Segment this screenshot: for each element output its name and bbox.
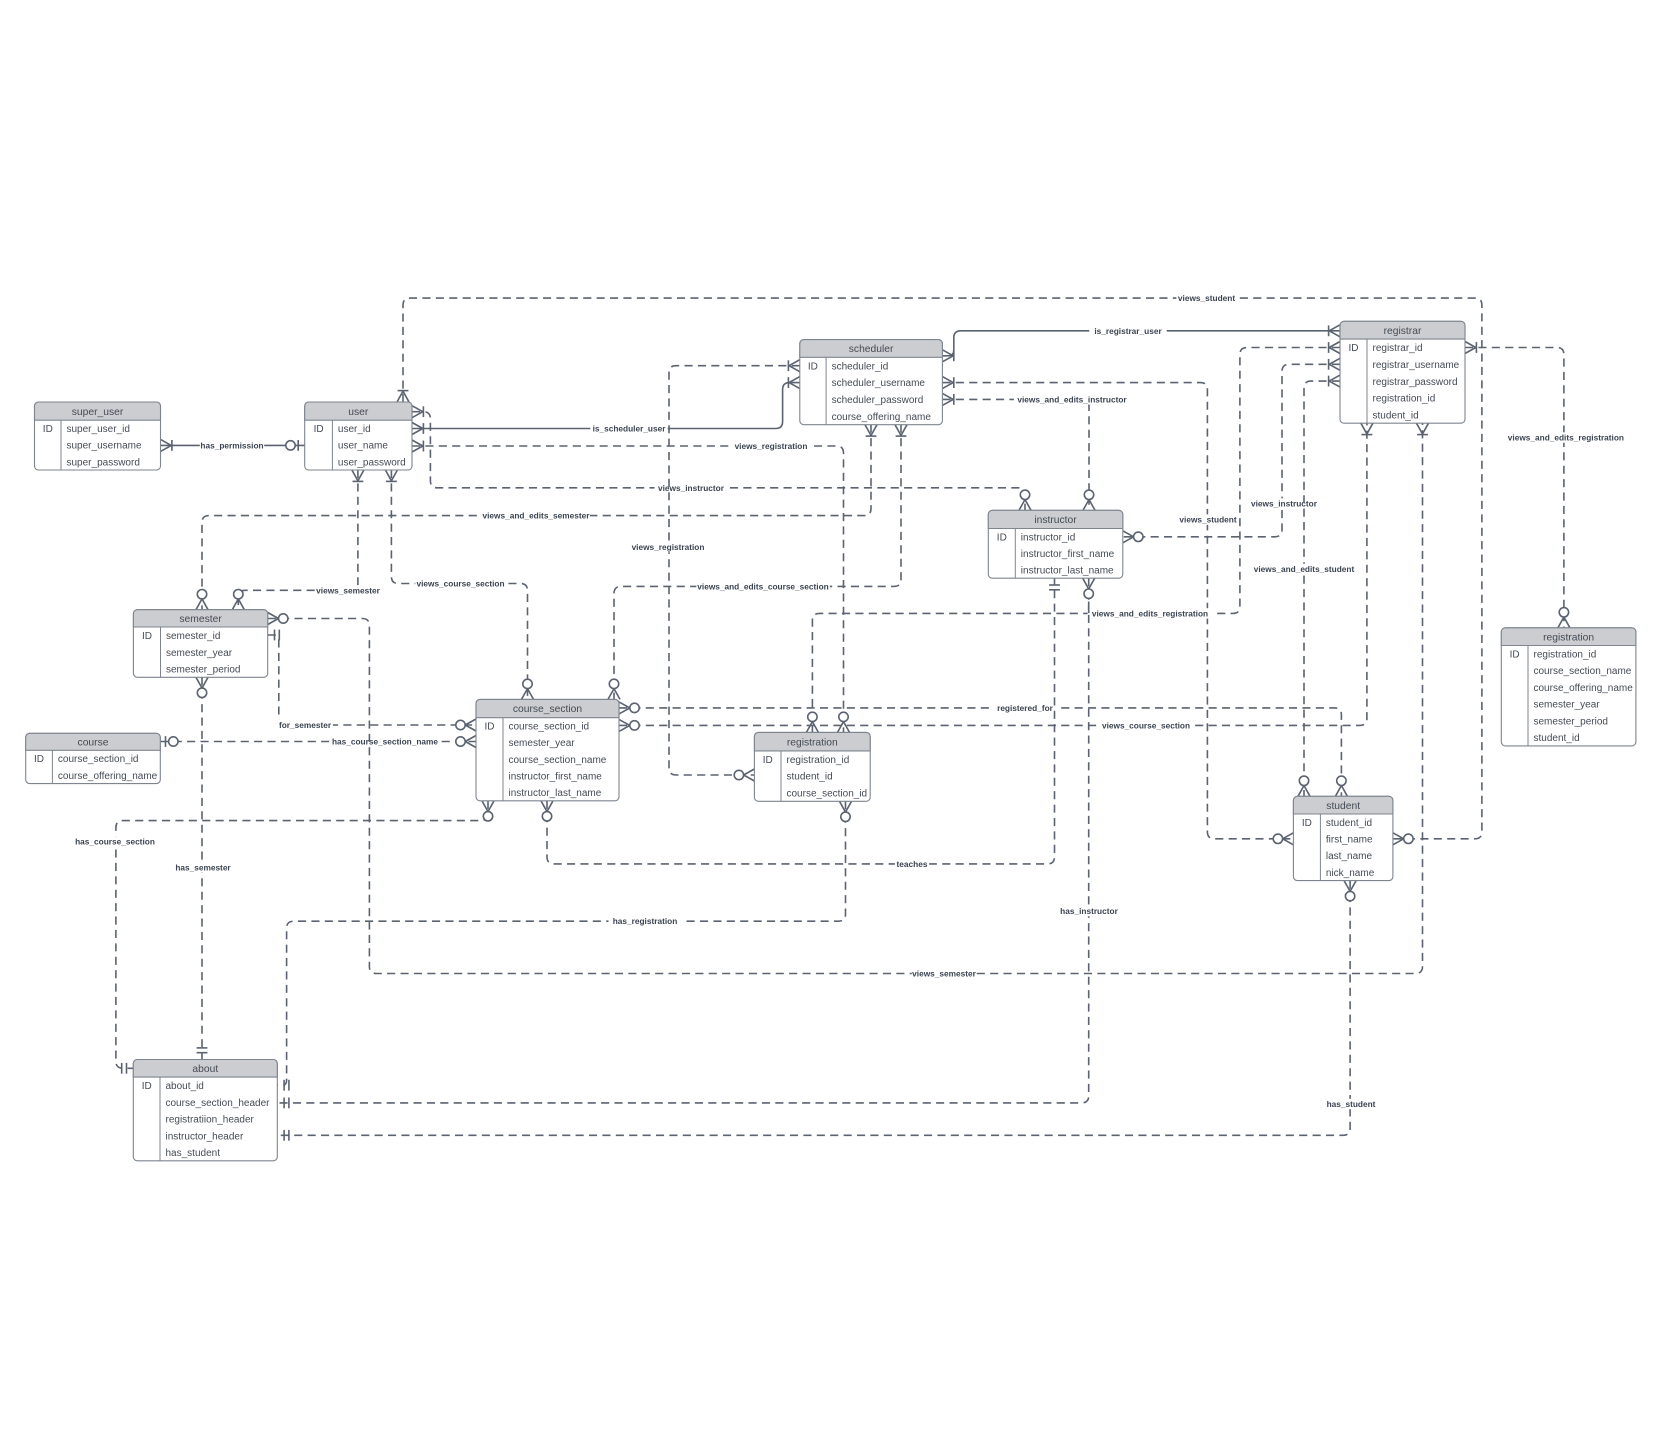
svg-text:views_and_edits_student: views_and_edits_student [1254,564,1355,574]
svg-text:scheduler_id: scheduler_id [832,361,889,372]
svg-text:super_user_id: super_user_id [67,424,130,435]
wire is_registrar_user [942,331,1340,356]
svg-text:registrar_id: registrar_id [1373,343,1423,354]
svg-text:has_course_section_name: has_course_section_name [332,737,438,747]
entity about (133,1059) [133,1060,277,1161]
svg-text:course: course [78,738,109,749]
svg-text:views_course_section: views_course_section [1102,720,1190,730]
entity student (1293,796) [1293,796,1393,880]
svg-text:registration: registration [787,737,838,748]
svg-text:ID: ID [43,424,53,435]
svg-text:semester_period: semester_period [1534,716,1608,727]
svg-text:course_section_id: course_section_id [787,789,868,800]
wire views_instructor (registrar-instructor) [1123,364,1340,537]
svg-text:registration_id: registration_id [1373,394,1436,405]
wire views_student (scheduler-student) [942,383,1293,839]
wire is_scheduler_user [412,383,800,429]
entity scheduler (799,339) [800,340,943,425]
svg-text:views_student: views_student [1179,515,1236,525]
svg-text:registration_id: registration_id [787,755,850,766]
svg-text:user_name: user_name [338,441,388,452]
svg-text:ID: ID [34,754,44,765]
svg-text:has_registration: has_registration [613,916,678,926]
svg-text:instructor_last_name: instructor_last_name [509,788,602,799]
svg-text:ID: ID [763,755,773,766]
svg-text:registratiion_header: registratiion_header [166,1115,255,1126]
svg-text:has_semester: has_semester [175,863,231,873]
svg-text:ID: ID [1349,343,1359,354]
svg-text:first_name: first_name [1326,835,1373,846]
svg-text:views_registration: views_registration [632,542,705,552]
wire views_and_edits_semester [202,425,871,610]
entity registration (1501,627) [1501,628,1636,746]
svg-text:views_and_edits_course_section: views_and_edits_course_section [697,581,828,591]
svg-text:student_id: student_id [787,772,833,783]
entity semester (133,609) [133,610,267,678]
wire has_course_section_name [160,741,476,743]
wire views_registration (user-registration) [412,446,844,732]
entity super_user (34,402) [35,402,161,470]
svg-text:course_offering_name: course_offering_name [832,412,932,423]
svg-text:is_registrar_user: is_registrar_user [1094,326,1162,336]
svg-text:instructor: instructor [1034,515,1077,526]
wire views_and_edits_registration branch (instructor) [1088,578,1090,613]
svg-text:views_student: views_student [1178,293,1235,303]
svg-text:ID: ID [997,532,1007,543]
svg-text:has_instructor: has_instructor [1060,906,1118,916]
svg-text:about: about [192,1064,218,1075]
wire views_and_edits_instructor [942,399,1089,510]
wire views_student (user-student) [403,298,1482,839]
svg-text:course_section_id: course_section_id [509,722,590,733]
svg-text:has_student: has_student [166,1148,221,1159]
wire views_instructor (user-instructor) [412,412,1025,511]
svg-text:super_user: super_user [72,407,124,418]
wire views_registration (scheduler-registration) [669,366,800,775]
svg-text:course_section_id: course_section_id [58,754,139,765]
svg-text:ID: ID [142,631,152,642]
svg-text:registration_id: registration_id [1534,650,1597,661]
svg-text:ID: ID [142,1081,152,1092]
svg-text:has_course_section: has_course_section [75,836,155,846]
svg-text:ID: ID [808,361,818,372]
wire has_instructor [277,602,1088,1103]
svg-text:super_password: super_password [67,457,140,468]
svg-text:registration: registration [1543,632,1594,643]
wire has_course_section [116,801,488,1069]
wire views_and_edits_course_section [614,425,901,700]
svg-text:ID: ID [314,424,324,435]
svg-text:semester_year: semester_year [1534,700,1601,711]
svg-text:scheduler: scheduler [849,344,894,355]
svg-text:teaches: teaches [897,859,928,869]
svg-text:views_and_edits_instructor: views_and_edits_instructor [1017,394,1127,404]
wire registered_for [619,708,1341,796]
svg-text:registered_for: registered_for [997,703,1054,713]
svg-text:semester_year: semester_year [166,648,233,659]
svg-text:instructor_id: instructor_id [1021,532,1075,543]
svg-text:views_and_edits_registration: views_and_edits_registration [1092,608,1208,618]
svg-text:is_scheduler_user: is_scheduler_user [593,424,667,434]
svg-text:student: student [1326,801,1360,812]
wire views_course_section (registrar-course_section) [619,423,1367,725]
svg-text:registrar: registrar [1384,326,1422,337]
entity registrar (1340,321) [1340,321,1465,423]
entity registration (754,732) [754,732,870,801]
wire views_and_edits_registration (registrar-registration right) [1465,348,1564,628]
svg-text:ID: ID [1510,650,1520,661]
wire views_and_edits_student [1304,381,1340,796]
svg-text:course_offering_name: course_offering_name [58,771,158,782]
wire views_course_section (user-course_section) [391,470,527,699]
svg-text:semester_period: semester_period [166,665,240,676]
wire views_and_edits_registration (registrar-registration-instructor) [812,348,1340,733]
svg-text:views_instructor: views_instructor [658,483,725,493]
svg-text:scheduler_username: scheduler_username [832,378,926,389]
svg-text:ID: ID [485,722,495,733]
svg-text:user: user [348,407,369,418]
svg-text:for_semester: for_semester [279,720,332,730]
entity course (25,733) [26,733,161,783]
wire teaches [547,578,1055,864]
svg-text:has_student: has_student [1327,1099,1376,1109]
entity user (304,402) [305,402,412,470]
svg-text:course_section_header: course_section_header [166,1098,271,1109]
wire views_semester (registrar-semester) [268,423,1423,973]
svg-text:about_id: about_id [166,1081,204,1092]
svg-text:views_course_section: views_course_section [416,579,504,589]
svg-text:semester: semester [179,614,222,625]
svg-text:course_section: course_section [513,704,583,715]
svg-text:registrar_password: registrar_password [1373,377,1458,388]
svg-text:views_and_edits_registration: views_and_edits_registration [1508,433,1624,443]
svg-text:course_offering_name: course_offering_name [1534,683,1634,694]
svg-text:has_permission: has_permission [200,440,263,450]
svg-text:views_semester: views_semester [316,585,380,595]
svg-text:registrar_username: registrar_username [1373,360,1460,371]
svg-text:instructor_first_name: instructor_first_name [509,772,603,783]
svg-text:semester_id: semester_id [166,631,220,642]
svg-text:super_username: super_username [67,441,142,452]
svg-text:course_section_name: course_section_name [1534,666,1632,677]
svg-text:views_registration: views_registration [735,441,808,451]
svg-text:instructor_header: instructor_header [166,1131,244,1142]
entity instructor (988,510) [988,510,1123,578]
svg-text:student_id: student_id [1326,818,1372,829]
svg-text:user_id: user_id [338,424,371,435]
svg-text:nick_name: nick_name [1326,868,1375,879]
entity course_section (476,699) [476,699,619,800]
wire has_permission [161,444,305,446]
svg-text:views_and_edits_semester: views_and_edits_semester [482,511,590,521]
wire for_semester [268,635,476,725]
wire has_student [277,881,1350,1136]
svg-text:views_instructor: views_instructor [1251,499,1318,509]
wire views_semester (user-semester) [238,470,358,610]
svg-text:user_password: user_password [338,457,406,468]
svg-text:student_id: student_id [1373,410,1419,421]
svg-text:instructor_last_name: instructor_last_name [1021,566,1114,577]
svg-text:semester_year: semester_year [509,738,576,749]
svg-text:last_name: last_name [1326,851,1373,862]
wire has_semester [201,677,203,1059]
wire has_registration [277,801,845,1085]
svg-text:ID: ID [1302,818,1312,829]
svg-text:student_id: student_id [1534,733,1580,744]
svg-text:scheduler_password: scheduler_password [832,395,924,406]
svg-text:course_section_name: course_section_name [509,755,607,766]
svg-text:instructor_first_name: instructor_first_name [1021,549,1115,560]
svg-text:views_semester: views_semester [912,969,976,979]
